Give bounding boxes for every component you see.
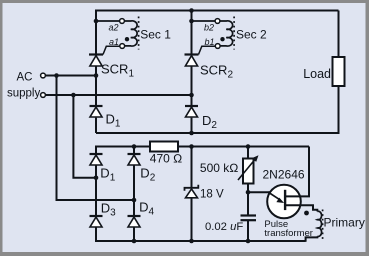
polarity dot Sec 2 (220, 37, 224, 41)
wire: AC line 1 (45, 75, 96, 77)
wire: bridge right branch vertical (133, 147, 135, 242)
node: a2 tap on SCR1 branch (94, 19, 99, 24)
thyristor SCR2 (185, 46, 216, 66)
pulse transformer primary winding (304, 210, 323, 242)
wire: top rail (96, 10, 339, 12)
node: bus B joins bridge left branch (94, 176, 99, 181)
svg-text:500 kΩ: 500 kΩ (200, 161, 239, 175)
resistor 470 ohm (150, 142, 178, 152)
svg-text:transformer: transformer (264, 228, 313, 239)
wire: zener branch vertical (191, 147, 193, 242)
svg-text:a2: a2 (108, 23, 118, 33)
wire: emitter wire from pot/cap node (248, 191, 270, 193)
wire: a2 lead (96, 20, 120, 22)
svg-text:470 Ω: 470 Ω (150, 151, 183, 165)
node: zener top on rail (189, 144, 194, 149)
svg-text:Primary: Primary (324, 216, 365, 230)
wire: bottom rail (96, 240, 306, 242)
diode D1 (upper) (90, 106, 103, 117)
wire: SCR2 branch vertical (191, 11, 193, 134)
polarity dot primary (304, 211, 309, 216)
svg-text:b1: b1 (204, 37, 214, 47)
diode D3 (bridge) (90, 216, 103, 227)
diode D2 (upper) (185, 106, 198, 117)
transformer secondary Sec 2 (192, 17, 235, 50)
svg-text:AC: AC (17, 72, 33, 84)
terminal: AC supply line 1 (41, 73, 46, 78)
svg-text:Sec 2: Sec 2 (236, 27, 267, 41)
wire: AC line 2 (45, 94, 191, 96)
terminal b1 (215, 44, 220, 49)
wire: bus A to bridge D2/D4 junction (57, 76, 135, 201)
terminal a2 (120, 19, 125, 24)
node: bus A joins bridge right branch (132, 198, 137, 203)
wire: b2 lead (192, 20, 216, 22)
wire: base B2 lead up to rail (285, 147, 309, 197)
transistor U1 2N2646 (UJT) (267, 185, 301, 219)
svg-text:Sec 1: Sec 1 (140, 27, 171, 41)
core of Sec 2 (dashed) (233, 17, 235, 50)
zener diode 18 V (185, 185, 199, 198)
wire: bridge left branch vertical (95, 146, 97, 243)
diode D4 (bridge) (128, 216, 141, 227)
node: b2 tap on SCR2 branch (189, 19, 194, 24)
wire: SCR1 branch vertical (95, 10, 97, 134)
core of pulse transformer (dashed) (322, 210, 324, 241)
polarity dot Sec 1 (125, 37, 129, 41)
node: bridge right branch top on rail (132, 144, 137, 149)
node: bus B on AC line 2 (71, 93, 76, 98)
node: AC line 2 joins SCR2 branch (189, 93, 194, 98)
coil Sec 2 winding (220, 21, 233, 46)
node: AC line 1 joins SCR1 branch (94, 73, 99, 78)
wire: dc rail with 470 ohm (96, 146, 309, 148)
wire: capacitor bottom to bottom rail (247, 220, 249, 241)
wire: base B1 lead staircase to primary (285, 205, 317, 211)
svg-text:b2: b2 (204, 23, 214, 33)
terminal a1 (120, 44, 125, 49)
wire: load branch upper drop (338, 11, 340, 59)
node: emitter tap between pot and capacitor (246, 190, 251, 195)
svg-text:supply: supply (7, 88, 40, 100)
diode D2 (bridge) (128, 154, 141, 165)
diode D1 (bridge) (90, 154, 103, 165)
node: D2 anode on mid return line (189, 131, 194, 136)
wire: primary bottom to bottom rail (306, 236, 318, 242)
emitter lead with arrow (268, 192, 281, 200)
wire: mid return line (96, 132, 339, 134)
thyristor SCR1 (89, 46, 120, 66)
svg-text:18 V: 18 V (200, 189, 224, 201)
node: bridge right branch on bottom rail (132, 239, 137, 244)
node: bus A on AC line 1 (54, 73, 59, 78)
svg-text:0.02 uF: 0.02 uF (205, 221, 243, 233)
capacitor 0.02 uF (241, 216, 257, 221)
wire: pot bottom to emitter node (247, 184, 249, 216)
node: SCR2 branch on top rail (189, 8, 194, 13)
node: capacitor bottom on bottom rail (246, 239, 251, 244)
transformer secondary Sec 1 (96, 17, 139, 50)
resistor Load (333, 57, 345, 86)
potentiometer 500 k (238, 155, 259, 183)
wire: bus B to bridge D1/D3 junction (73, 95, 96, 178)
coil Sec 1 winding (124, 21, 137, 46)
terminal b2 (215, 19, 220, 24)
svg-text:2N2646: 2N2646 (263, 168, 305, 182)
svg-text:Load: Load (303, 67, 331, 81)
node: zener bottom on bottom rail (189, 239, 194, 244)
core of Sec 1 (dashed) (138, 17, 140, 50)
terminal: AC supply line 2 (41, 93, 46, 98)
wire: pot branch from rail (247, 147, 249, 159)
svg-text:a1: a1 (109, 37, 119, 47)
node: pot top on rail (246, 144, 251, 149)
wire: load branch lower drop (338, 86, 340, 134)
